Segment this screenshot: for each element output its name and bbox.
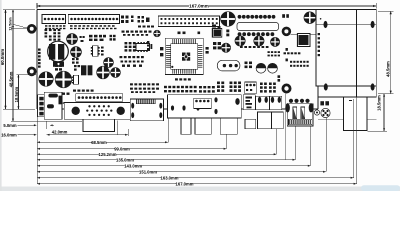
tuner pad top-left (324, 21, 328, 28)
capacitor C1 (67, 34, 78, 45)
svg-text:48.5mm: 48.5mm (8, 71, 13, 87)
VGA shell below (83, 119, 114, 131)
HDMI connector J3 (130, 99, 163, 121)
IC U3 (black) (212, 28, 222, 38)
header CN2 (68, 15, 119, 24)
board top edge (37, 9, 376, 11)
smd cluster E (122, 31, 125, 33)
tuner pad bottom-left (324, 83, 328, 90)
tuner bottom connector strip (318, 86, 376, 97)
smd cluster F (125, 42, 128, 44)
smd row above VGA (73, 90, 76, 92)
LVDS connector CN3 (158, 16, 219, 27)
svg-text:99.0mm: 99.0mm (114, 146, 130, 151)
mounting hole H4 (283, 85, 290, 92)
smd row V (240, 46, 243, 48)
board bottom edge (37, 108, 318, 110)
svg-text:143.0mm: 143.0mm (124, 163, 142, 168)
dimension 135.0mm (37, 159, 116, 161)
dimension 11.5mm left (12, 10, 14, 29)
smd row N1 (175, 78, 178, 80)
capacitor C4 (39, 72, 53, 86)
AV section pads (182, 105, 185, 110)
dimension 163.0mm (37, 177, 161, 179)
svg-text:68.5mm: 68.5mm (91, 140, 107, 145)
pads right of U3 (226, 30, 229, 33)
smd rows T (290, 61, 292, 63)
parts cluster X1 (138, 16, 141, 19)
IC U4 (black) (297, 33, 311, 47)
svg-text:11.5mm: 11.5mm (9, 17, 13, 30)
smd row under CN1 (45, 25, 47, 27)
svg-text:151.0mm: 151.0mm (139, 169, 157, 174)
AV hanging jack 2 (195, 118, 211, 134)
capacitor C10 (304, 12, 316, 24)
svg-text:125.2mm: 125.2mm (99, 152, 117, 157)
pads I (72, 58, 75, 60)
capacitor C2 (71, 47, 82, 58)
tuner pad bottom-right (371, 83, 375, 90)
parts cluster D (110, 35, 113, 37)
tuner shield box (316, 10, 376, 87)
dimension 18.5mm right (383, 94, 385, 131)
pads left of U1 (160, 47, 163, 50)
photo edge shading bottom (0, 187, 400, 192)
tuner side pad column (318, 32, 320, 34)
smd row under CN2 (70, 25, 73, 27)
smd groups Pp (217, 82, 220, 85)
inverter connector CN5 (38, 95, 46, 117)
svg-text:60.0mm: 60.0mm (0, 49, 5, 65)
wire from H3 to tuner (291, 34, 316, 36)
extension line 163.0mm (353, 99, 355, 178)
dimension 167.0mm bottom (37, 183, 176, 185)
capacitor C14 (271, 37, 280, 46)
dimension 151.0mm (37, 171, 139, 173)
left edge pad column K (38, 49, 41, 51)
smd rows O (130, 83, 133, 85)
dimension 18.5mm left (17, 75, 19, 109)
capacitor C9 (221, 12, 236, 27)
tuner skirt line (318, 119, 376, 121)
board lower-right step (317, 97, 319, 109)
board right edge (356, 10, 358, 98)
pads right of CN2 (121, 16, 124, 19)
photo edge shading left (0, 0, 2, 191)
VGA screw left (72, 107, 80, 115)
tuner fiducial dot (320, 18, 322, 20)
extension line left common (36, 110, 38, 184)
pin dots row upper (238, 15, 242, 19)
watermark pill bottom right (361, 185, 400, 191)
mounting hole H1 (28, 25, 35, 32)
board left edge (36, 10, 38, 110)
capacitor C8 (154, 30, 161, 37)
pads right of U1 (206, 47, 209, 50)
pin dots row lower (238, 32, 242, 36)
trimpot VR1 (321, 108, 330, 117)
audio hanging body 2 (272, 112, 284, 129)
extension line 143.0mm (310, 126, 312, 165)
USB connector J4 (287, 104, 313, 126)
extension line 125.2mm (276, 129, 278, 154)
parts L2 (74, 65, 77, 67)
AV section box (168, 95, 242, 118)
extension line 167.0mm right (356, 98, 358, 184)
dimension 68.5mm (37, 141, 91, 143)
extension line VGA 42mm (116, 121, 118, 135)
pads J (101, 47, 104, 49)
buzzer small (314, 110, 319, 115)
dimension 125.2mm (37, 153, 99, 155)
smd rows U (268, 51, 270, 53)
smd groups Q (260, 83, 263, 86)
svg-text:5.0mm: 5.0mm (3, 123, 17, 128)
AV hanging jack 3 (220, 118, 237, 134)
smd rows N2 (164, 86, 167, 88)
capacitor C6 (97, 66, 110, 79)
pads G (147, 41, 149, 43)
header R (245, 82, 257, 94)
dimension 42.0mm (47, 134, 128, 136)
svg-text:135.0mm: 135.0mm (116, 157, 134, 162)
power input connector CN6 (44, 92, 62, 119)
extension line 151.0mm (325, 118, 327, 172)
svg-text:18.5mm: 18.5mm (376, 95, 381, 111)
small parts B (80, 36, 82, 38)
extension line 68.5mm (167, 118, 169, 142)
smd rows N3 (199, 86, 202, 88)
dimension 99.0mm (37, 148, 114, 150)
VGA connector J2 body (64, 103, 130, 120)
pads W1 (278, 75, 281, 78)
VGA pin holes (88, 105, 90, 107)
DC jack inner mark (349, 100, 352, 102)
capacitor C3 (104, 58, 114, 68)
DC jack J1 (344, 97, 367, 131)
svg-text:48.5mm: 48.5mm (386, 61, 391, 77)
capacitor C11 (221, 43, 230, 52)
header CN1 (42, 15, 66, 24)
pads above U1 (178, 32, 181, 35)
AV header (194, 98, 212, 108)
mounting hole H3 (283, 28, 290, 35)
VGA pin strip (76, 94, 123, 102)
IC S3 (74, 75, 79, 84)
capacitor C12 (235, 36, 245, 46)
audio jack 1 (256, 96, 270, 110)
smd row H (120, 56, 123, 58)
svg-text:16.0mm: 16.0mm (1, 132, 17, 137)
svg-text:167.0mm: 167.0mm (176, 181, 194, 186)
smd cluster A (45, 29, 48, 31)
svg-text:167.0mm: 167.0mm (189, 4, 209, 9)
connector body CN4 (237, 23, 279, 31)
dimension 143.0mm (37, 165, 125, 167)
capacitor C7 (111, 68, 121, 78)
extension line 135.0mm (294, 126, 296, 159)
dimension 48.5mm right (390, 11, 392, 94)
svg-text:18.5mm: 18.5mm (14, 86, 19, 102)
wire H4 extension down (285, 94, 287, 160)
AV hanging jack 1 (181, 118, 191, 134)
dimension 167.0mm top (37, 5, 189, 7)
photo background (0, 0, 400, 191)
main scaler IC U1 (QFP) (165, 38, 203, 74)
dimension 48.5mm left (12, 29, 14, 122)
pads mid (245, 62, 248, 65)
parts cluster Cc (89, 35, 93, 38)
capacitor C15 (256, 63, 266, 73)
crystal Y1 (217, 60, 240, 71)
pad pair P1 (282, 14, 285, 18)
dimension 60.0mm left (5, 10, 7, 110)
component box hatch (243, 95, 255, 110)
capacitor C16 (268, 63, 278, 73)
smd row S (284, 52, 287, 54)
capacitor C13 (254, 36, 264, 46)
tuner pad top-right (371, 21, 375, 28)
audio jack 2 (270, 96, 282, 110)
transformer T2 (81, 65, 86, 75)
pads under C9 (212, 25, 216, 28)
hanging jack 4 (245, 119, 256, 129)
mounting hole H2 (28, 68, 35, 75)
extension line 99.0mm (226, 135, 228, 149)
regulator U2 (93, 46, 99, 57)
speaker pads (320, 101, 324, 105)
VGA screw right (117, 107, 125, 115)
IC S2 (136, 44, 150, 51)
svg-text:42.0mm: 42.0mm (52, 129, 68, 134)
parts L1 (55, 65, 58, 67)
svg-text:163.0mm: 163.0mm (161, 175, 179, 180)
pads M (213, 42, 216, 45)
toroid inductor L1 (48, 41, 69, 62)
tuner inner line (316, 24, 376, 26)
audio hanging body 1 (258, 112, 272, 129)
capacitor C5 (55, 71, 72, 88)
